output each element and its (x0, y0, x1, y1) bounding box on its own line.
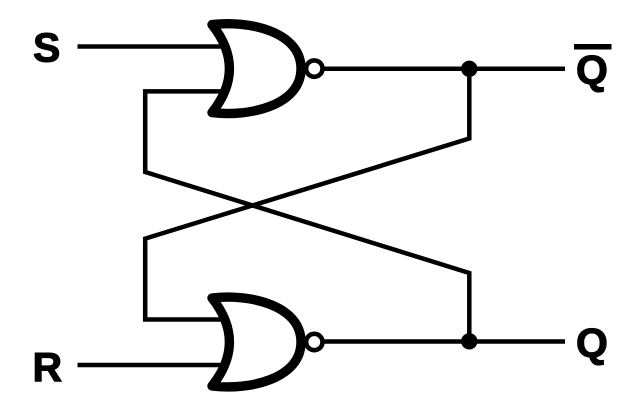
svg-text:S: S (33, 25, 60, 71)
svg-text:Q: Q (576, 47, 608, 93)
svg-text:Q: Q (576, 320, 608, 366)
svg-text:R: R (33, 344, 63, 390)
